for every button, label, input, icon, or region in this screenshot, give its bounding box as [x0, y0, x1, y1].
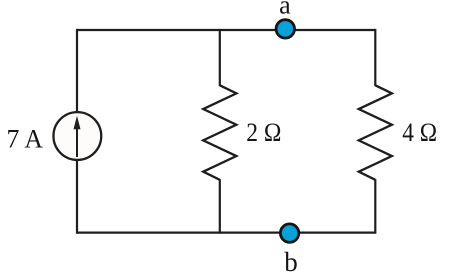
node a terminal dot [276, 20, 294, 38]
wire bottom [77, 232, 375, 234]
wire middle top [219, 29, 221, 86]
resistor R1 (2 ohm) zigzag [203, 85, 236, 180]
svg-text:4 Ω: 4 Ω [402, 118, 437, 147]
wire top [77, 29, 375, 31]
svg-text:a: a [279, 0, 291, 20]
wire left lower [76, 160, 78, 234]
resistor R2 (4 ohm) zigzag [359, 85, 392, 180]
wire left upper [76, 29, 78, 113]
current source I1 [53, 112, 101, 160]
svg-text:b: b [284, 247, 298, 277]
wire middle bottom [219, 179, 221, 234]
node b terminal dot [280, 224, 298, 242]
svg-text:7 A: 7 A [7, 124, 44, 153]
svg-text:2 Ω: 2 Ω [246, 118, 281, 147]
wire right top [374, 29, 376, 86]
wire right bottom [374, 179, 376, 234]
current source arrow [74, 116, 81, 157]
